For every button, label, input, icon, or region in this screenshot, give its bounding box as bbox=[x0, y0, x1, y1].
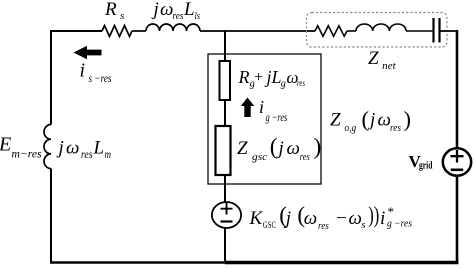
svg-text:)): )) bbox=[368, 203, 379, 228]
label E_m-res bbox=[0, 134, 42, 161]
label Rg+jLg w_res bbox=[238, 67, 306, 90]
wire top-left horizontal bbox=[51, 30, 102, 32]
wire middle below box bbox=[224, 175, 226, 202]
svg-text:ω: ω bbox=[160, 0, 173, 20]
impedance Rg+jLg rect bbox=[220, 61, 231, 100]
voltage source V_grid bbox=[443, 148, 471, 175]
wire left vertical upper bbox=[50, 30, 52, 125]
svg-text:ω: ω bbox=[378, 110, 391, 131]
svg-text:res: res bbox=[390, 122, 401, 134]
svg-text:g −res: g −res bbox=[266, 110, 288, 124]
svg-text:s: s bbox=[120, 10, 124, 22]
label j w_res Lls bbox=[151, 0, 201, 22]
svg-text:Z: Z bbox=[330, 110, 341, 131]
controlled source K_GSC circle bbox=[212, 202, 241, 228]
svg-text:grid: grid bbox=[419, 160, 433, 172]
current arrow i_s-res bbox=[74, 46, 102, 59]
svg-text:L: L bbox=[93, 138, 105, 159]
svg-text:jL: jL bbox=[265, 67, 282, 87]
svg-text:i: i bbox=[259, 97, 264, 117]
wire between Rs and Lls bbox=[132, 30, 146, 32]
resistor Rs bbox=[102, 26, 132, 37]
svg-text:+: + bbox=[254, 69, 263, 86]
svg-text:ω: ω bbox=[349, 208, 362, 229]
svg-text:m: m bbox=[105, 149, 112, 161]
wire middle bottom bbox=[224, 228, 226, 261]
svg-text:g: g bbox=[281, 79, 286, 90]
svg-text:g −res: g −res bbox=[387, 219, 412, 230]
svg-text:ω: ω bbox=[66, 138, 79, 159]
svg-text:−: − bbox=[336, 208, 347, 229]
inductor in Znet bbox=[356, 24, 406, 31]
label Rs bbox=[104, 0, 124, 22]
label j w_res Lm bbox=[56, 138, 112, 162]
wire in Znet bbox=[347, 30, 356, 32]
svg-text:o,g: o,g bbox=[345, 122, 357, 134]
svg-text:Z: Z bbox=[368, 48, 379, 69]
svg-text:net: net bbox=[382, 60, 396, 72]
inductor Lls bbox=[146, 24, 200, 31]
resistor in Znet bbox=[315, 26, 347, 36]
svg-text:ω: ω bbox=[287, 138, 300, 159]
label V_grid bbox=[409, 152, 433, 172]
label Znet bbox=[368, 48, 397, 72]
svg-text:L: L bbox=[183, 0, 195, 20]
wire top middle bbox=[200, 30, 315, 32]
svg-text:R: R bbox=[238, 67, 250, 87]
label i_s-res bbox=[80, 60, 112, 86]
label Zgsc (j w_res) bbox=[237, 134, 321, 163]
svg-text:m−res: m−res bbox=[12, 147, 42, 161]
svg-text:res: res bbox=[297, 79, 305, 89]
dashed box Znet bbox=[307, 13, 448, 48]
current arrow i_g-res bbox=[241, 98, 254, 118]
svg-text:i: i bbox=[380, 208, 385, 229]
wire right vertical upper bbox=[456, 30, 459, 149]
svg-text:Z: Z bbox=[237, 138, 248, 159]
svg-text:i: i bbox=[80, 60, 86, 82]
label i_g-res bbox=[259, 97, 288, 124]
capacitor in Znet bbox=[434, 18, 440, 43]
impedance Zgsc rect bbox=[216, 126, 231, 175]
svg-text:res: res bbox=[81, 149, 93, 161]
label K_GSC(j(w_res - w_s))i*_g-res bbox=[249, 203, 413, 232]
wire middle vertical from top bbox=[224, 31, 226, 61]
svg-text:): ) bbox=[404, 106, 412, 131]
svg-text:): ) bbox=[314, 134, 322, 160]
wire capacitor to corner bbox=[441, 30, 459, 32]
svg-text:res: res bbox=[300, 151, 310, 163]
svg-text:K: K bbox=[249, 208, 264, 229]
svg-text:E: E bbox=[0, 134, 11, 156]
box Z_o,g outline bbox=[208, 54, 321, 184]
svg-text:*: * bbox=[388, 204, 395, 219]
svg-text:GSC: GSC bbox=[263, 221, 276, 231]
wire left vertical lower bbox=[50, 169, 52, 262]
svg-text:(: ( bbox=[362, 106, 370, 131]
svg-text:s: s bbox=[361, 219, 365, 231]
wire bottom right bbox=[225, 261, 459, 264]
svg-text:res: res bbox=[173, 10, 184, 22]
svg-text:s −res: s −res bbox=[89, 71, 112, 85]
svg-text:(: ( bbox=[270, 134, 278, 160]
label Z_o,g (j w_res) bbox=[330, 106, 411, 134]
svg-text:R: R bbox=[104, 0, 117, 20]
svg-text:res: res bbox=[318, 220, 329, 232]
svg-text:gsc: gsc bbox=[252, 151, 267, 163]
wire between rects bbox=[224, 100, 226, 126]
svg-text:ls: ls bbox=[195, 10, 201, 22]
wire bottom left bbox=[50, 261, 225, 264]
svg-text:ω: ω bbox=[304, 208, 317, 229]
inductor Lm bbox=[44, 125, 51, 169]
wire right vertical lower bbox=[456, 176, 459, 261]
wire to capacitor bbox=[406, 30, 433, 32]
